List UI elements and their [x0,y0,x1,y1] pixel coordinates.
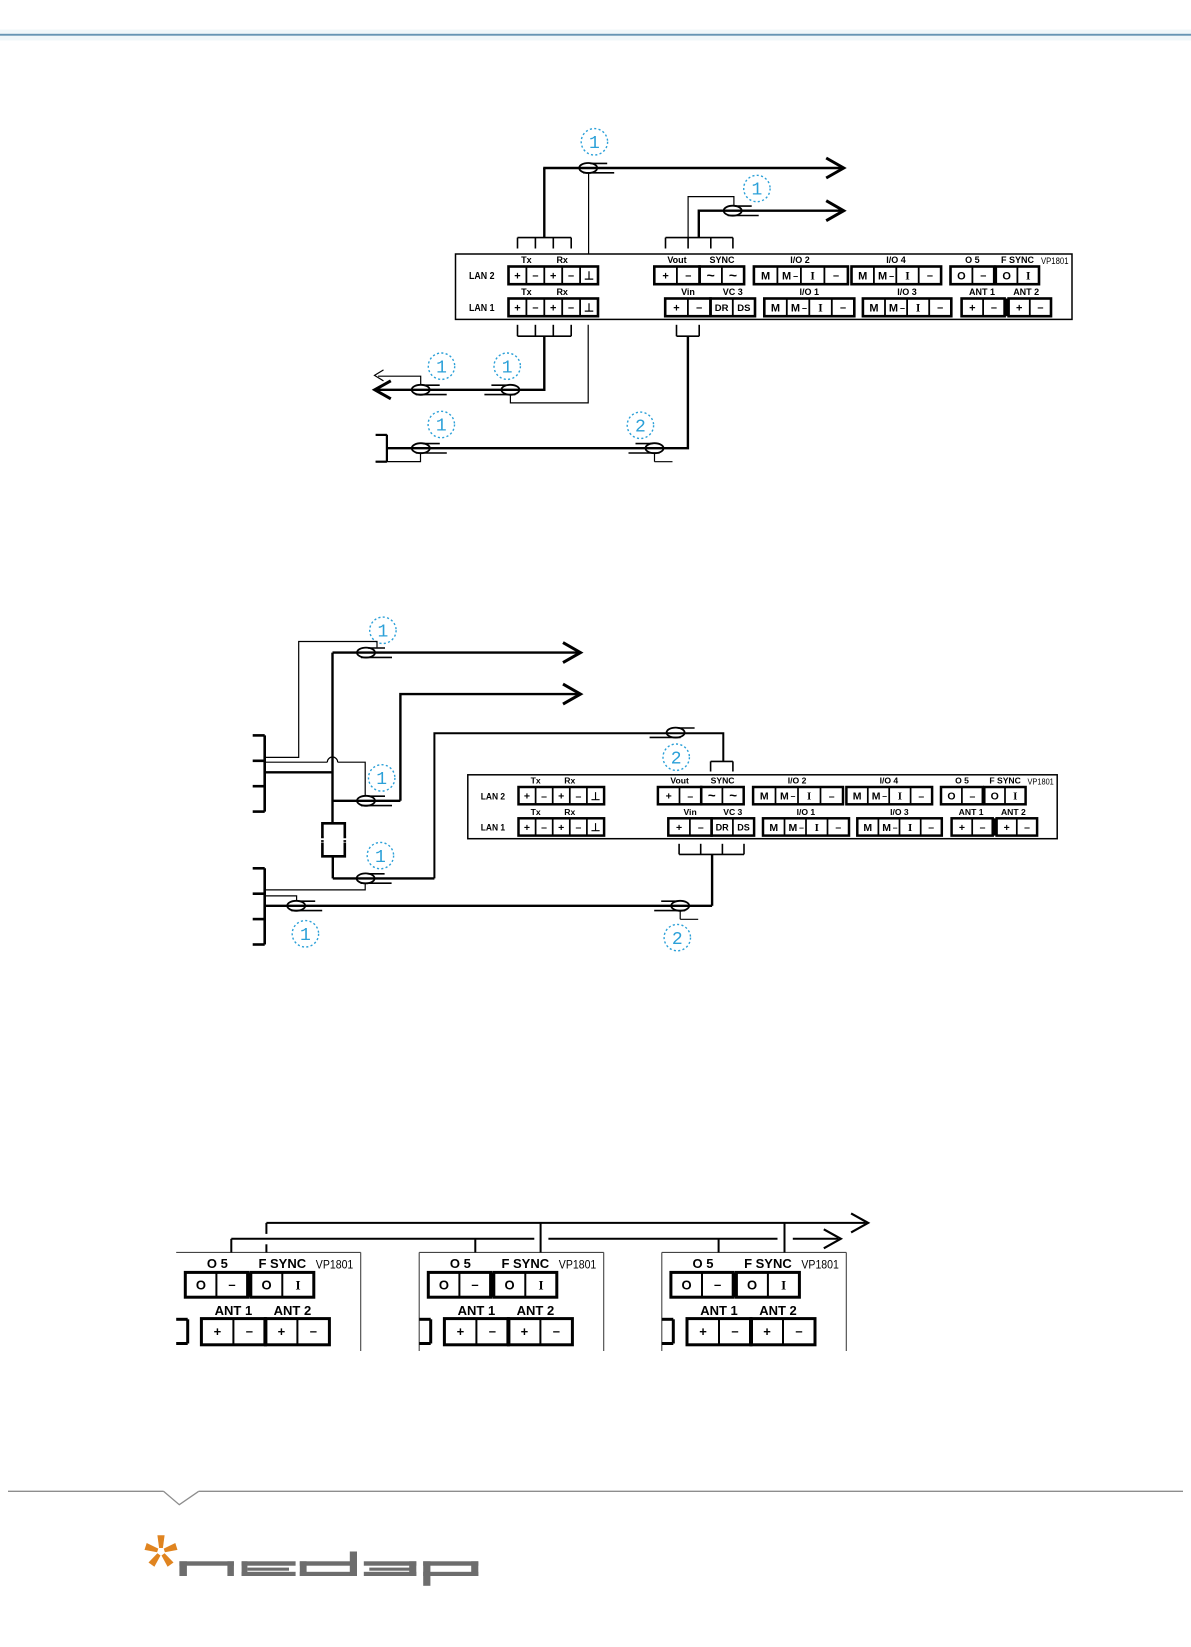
svg-text:⊥: ⊥ [584,303,594,315]
svg-text:DR: DR [716,823,730,833]
svg-text:M: M [761,271,770,283]
svg-text:–: – [937,302,943,314]
svg-text:ANT 2: ANT 2 [274,1303,312,1318]
svg-text:~: ~ [729,267,737,283]
svg-text:–: – [991,302,997,314]
svg-text:Rx: Rx [556,287,568,297]
svg-text:–: – [893,822,898,832]
svg-text:F SYNC: F SYNC [1001,255,1035,265]
svg-text:M: M [872,791,881,803]
svg-text:–: – [489,1324,496,1339]
svg-text:F SYNC: F SYNC [258,1256,306,1271]
svg-text:1: 1 [436,417,447,437]
svg-text:+: + [550,303,556,315]
svg-text:2: 2 [672,930,683,950]
svg-text:Vin: Vin [683,807,696,817]
svg-text:O 5: O 5 [955,776,969,786]
svg-text:+: + [558,791,564,803]
svg-text:I: I [781,1278,786,1293]
svg-text:I/O 3: I/O 3 [897,287,917,297]
svg-text:–: – [471,1277,478,1292]
svg-text:I/O 2: I/O 2 [790,255,810,265]
svg-text:–: – [795,1324,802,1339]
svg-text:M: M [791,303,800,315]
svg-text:I: I [905,271,910,283]
svg-text:O: O [439,1278,449,1293]
svg-text:O 5: O 5 [965,255,980,265]
svg-text:+: + [666,791,672,803]
svg-text:M: M [782,271,791,283]
svg-text:2: 2 [671,749,682,769]
svg-text:–: – [802,303,807,313]
svg-text:–: – [532,270,538,282]
svg-text:I: I [898,791,902,803]
svg-text:–: – [541,822,547,834]
svg-text:–: – [731,1324,738,1339]
svg-text:–: – [900,303,905,313]
svg-text:I: I [1026,271,1031,283]
svg-text:O 5: O 5 [207,1256,228,1271]
svg-text:+: + [673,303,679,315]
svg-text:–: – [889,271,894,281]
svg-text:~: ~ [708,788,716,803]
svg-text:–: – [1037,302,1043,314]
svg-text:DR: DR [715,303,729,314]
svg-text:M: M [780,791,789,803]
svg-text:–: – [793,271,798,281]
svg-text:~: ~ [729,788,737,803]
svg-text:+: + [558,822,564,834]
svg-text:I: I [818,303,823,315]
svg-text:+: + [524,791,530,803]
svg-text:DS: DS [737,303,750,314]
svg-text:Vout: Vout [667,255,686,265]
svg-text:–: – [882,791,887,801]
svg-text:SYNC: SYNC [711,776,735,786]
svg-text:1: 1 [502,358,513,378]
svg-text:Rx: Rx [556,255,568,265]
svg-text:–: – [553,1324,560,1339]
svg-text:+: + [514,303,520,315]
svg-text:Tx: Tx [521,255,532,265]
svg-text:I/O 1: I/O 1 [797,807,816,817]
svg-text:Tx: Tx [521,287,532,297]
svg-text:–: – [918,790,924,802]
svg-text:VP1801: VP1801 [1028,777,1054,787]
svg-text:F SYNC: F SYNC [744,1256,792,1271]
svg-text:⊥: ⊥ [591,822,601,834]
svg-text:Vout: Vout [670,776,689,786]
svg-text:VP1801: VP1801 [1041,256,1069,266]
svg-text:–: – [685,270,691,282]
svg-text:I/O 2: I/O 2 [788,776,807,786]
svg-text:M: M [863,822,872,834]
svg-text:O: O [1002,271,1011,283]
svg-text:+: + [514,271,520,283]
svg-text:2: 2 [635,418,646,438]
svg-text:ANT 1: ANT 1 [969,287,995,297]
svg-text:+: + [1004,822,1010,834]
svg-text:+: + [1016,303,1022,315]
svg-text:–: – [575,822,581,834]
svg-text:LAN 2: LAN 2 [469,271,495,282]
svg-text:1: 1 [751,181,762,201]
svg-text:⊥: ⊥ [591,791,601,803]
svg-text:+: + [278,1324,286,1339]
svg-text:I: I [908,822,912,834]
svg-text:I: I [1013,791,1017,803]
svg-text:SYNC: SYNC [709,255,735,265]
svg-text:I/O 4: I/O 4 [880,776,899,786]
svg-text:–: – [969,790,975,802]
svg-text:O: O [681,1278,691,1293]
svg-text:–: – [714,1277,721,1292]
svg-text:–: – [928,822,934,834]
svg-text:+: + [959,822,965,834]
svg-text:+: + [699,1324,707,1339]
svg-text:–: – [835,822,841,834]
svg-text:–: – [980,822,986,834]
svg-text:Rx: Rx [564,776,575,786]
svg-text:1: 1 [376,770,387,790]
svg-text:M: M [760,791,769,803]
svg-text:ANT 2: ANT 2 [1001,807,1026,817]
svg-text:⊥: ⊥ [584,271,594,283]
svg-text:VC 3: VC 3 [723,287,743,297]
svg-text:LAN 1: LAN 1 [481,823,506,834]
svg-text:ANT 1: ANT 1 [458,1303,496,1318]
svg-text:+: + [763,1324,771,1339]
svg-text:ANT 2: ANT 2 [1013,287,1039,297]
svg-text:–: – [927,270,933,282]
svg-text:–: – [840,302,846,314]
svg-text:O: O [261,1278,271,1293]
svg-text:M: M [789,822,798,834]
svg-text:–: – [799,822,804,832]
svg-text:M: M [771,303,780,315]
svg-text:+: + [524,822,530,834]
svg-text:F SYNC: F SYNC [989,776,1021,786]
svg-text:I: I [538,1278,543,1293]
svg-text:–: – [696,302,702,314]
svg-text:M: M [769,822,778,834]
svg-text:–: – [698,822,704,834]
svg-text:M: M [869,303,878,315]
svg-text:O: O [947,791,955,803]
svg-text:Vin: Vin [681,287,695,297]
svg-text:1: 1 [589,134,600,154]
svg-text:O: O [196,1278,206,1293]
svg-text:1: 1 [377,623,388,643]
svg-text:M: M [853,791,862,803]
svg-text:–: – [541,790,547,802]
svg-text:F SYNC: F SYNC [501,1256,549,1271]
svg-text:O: O [957,271,966,283]
svg-text:+: + [521,1324,529,1339]
svg-text:M: M [882,822,891,834]
svg-text:+: + [214,1324,222,1339]
svg-text:1: 1 [375,848,386,868]
svg-text:I/O 3: I/O 3 [890,807,909,817]
svg-text:M: M [858,271,867,283]
svg-text:+: + [969,303,975,315]
svg-text:O 5: O 5 [450,1256,471,1271]
svg-text:ANT 1: ANT 1 [959,807,984,817]
svg-text:I/O 1: I/O 1 [799,287,819,297]
svg-text:–: – [228,1277,235,1292]
svg-text:+: + [662,271,668,283]
svg-text:–: – [833,270,839,282]
svg-text:Tx: Tx [531,807,541,817]
svg-text:VP1801: VP1801 [801,1260,839,1272]
svg-text:LAN 1: LAN 1 [469,303,495,314]
svg-text:I: I [815,822,819,834]
svg-text:–: – [575,790,581,802]
svg-text:M: M [889,303,898,315]
svg-text:+: + [550,271,556,283]
svg-text:ANT 2: ANT 2 [517,1303,555,1318]
svg-text:–: – [791,791,796,801]
svg-text:–: – [310,1324,317,1339]
svg-text:+: + [457,1324,465,1339]
svg-text:DS: DS [737,823,750,833]
svg-text:VC 3: VC 3 [723,807,742,817]
svg-text:O: O [747,1278,757,1293]
svg-text:O 5: O 5 [693,1256,714,1271]
svg-text:–: – [687,790,693,802]
svg-text:–: – [568,302,574,314]
svg-text:+: + [676,822,682,834]
svg-text:O: O [991,791,999,803]
svg-text:–: – [829,790,835,802]
svg-text:Rx: Rx [564,807,575,817]
svg-text:–: – [568,270,574,282]
svg-text:1: 1 [300,926,311,946]
svg-text:ANT 1: ANT 1 [215,1303,253,1318]
svg-text:I/O 4: I/O 4 [886,255,906,265]
svg-text:I: I [295,1278,300,1293]
svg-text:–: – [1024,822,1030,834]
svg-text:Tx: Tx [531,776,541,786]
svg-text:O: O [504,1278,514,1293]
svg-text:VP1801: VP1801 [559,1260,597,1272]
svg-text:–: – [532,302,538,314]
svg-text:I: I [807,791,811,803]
svg-text:VP1801: VP1801 [316,1260,354,1272]
svg-text:–: – [980,270,986,282]
svg-text:ANT 2: ANT 2 [759,1303,797,1318]
svg-text:LAN 2: LAN 2 [481,791,505,802]
svg-text:M: M [878,271,887,283]
svg-text:I: I [810,271,815,283]
svg-text:~: ~ [707,267,715,283]
svg-text:–: – [246,1324,253,1339]
svg-text:I: I [916,303,921,315]
svg-text:1: 1 [436,358,447,378]
svg-text:ANT 1: ANT 1 [700,1303,738,1318]
